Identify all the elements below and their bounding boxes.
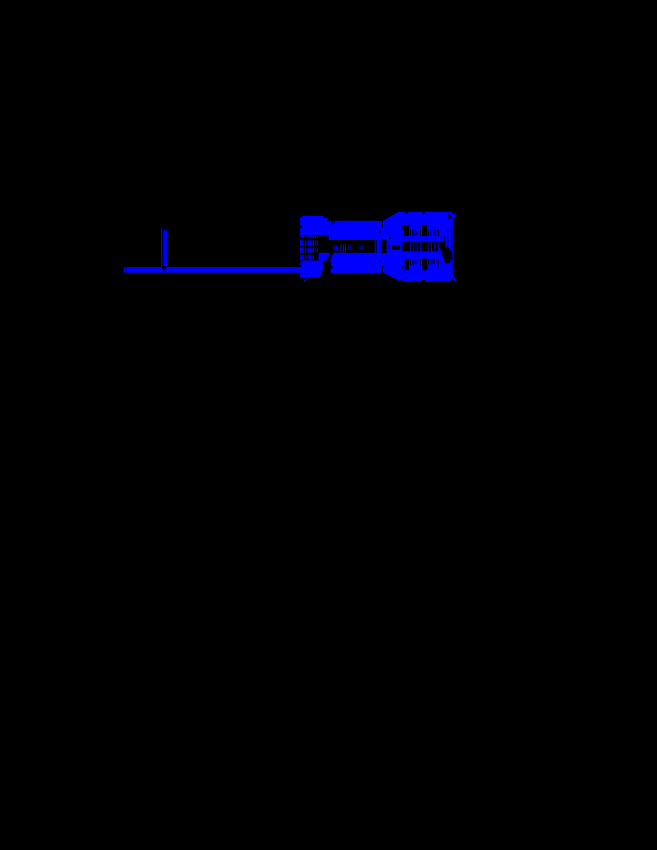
bottom edge wedge xyxy=(398,279,402,282)
bore speck 1 xyxy=(334,246,335,251)
hatch line 7 dim xyxy=(316,236,319,253)
lower slot s4 xyxy=(416,259,419,264)
bore speck 2 xyxy=(336,246,337,251)
lower slot s2 xyxy=(412,259,415,265)
lower slot s6 xyxy=(427,259,430,264)
middle band blue line 3 xyxy=(416,242,419,252)
hatch line 3 xyxy=(308,235,309,261)
dashed end line gap 5 xyxy=(300,260,302,262)
dashed end line gap 3 xyxy=(300,245,302,247)
wire lead start tick xyxy=(124,267,126,273)
hatch break row 1 xyxy=(302,238,314,240)
flare dot upper xyxy=(390,238,391,239)
bore end blue column 2 xyxy=(377,240,379,253)
lower slot s1 xyxy=(409,259,412,265)
middle shadow band xyxy=(403,242,440,252)
wire barrel bottom band xyxy=(331,253,384,273)
wire lead xyxy=(126,267,320,273)
corner ragged dash bottom xyxy=(449,275,450,280)
receptacle opening shadow xyxy=(439,242,451,264)
barrel below-bore ledge xyxy=(319,253,331,261)
top band left notch 2 xyxy=(334,221,335,224)
hatch line 5 xyxy=(313,235,315,261)
right seam line long xyxy=(451,223,452,274)
lower slot s10 xyxy=(438,259,439,267)
bore speck 3 xyxy=(341,245,342,253)
dashed end line gap 4 xyxy=(300,253,302,255)
crimp indent line 1 xyxy=(325,263,332,265)
strip speck a xyxy=(347,245,350,250)
hatch break row 4 xyxy=(302,259,314,261)
crimp indent line 2 xyxy=(325,266,333,269)
barrel seam bottom dash xyxy=(382,266,383,273)
bore speck 5 xyxy=(345,245,346,253)
middle band blue line 5 xyxy=(427,242,430,252)
strip marker arrow notch xyxy=(161,267,167,271)
strip speck c xyxy=(359,246,362,250)
middle band blue line 2 xyxy=(412,242,415,252)
dashed end line gap 2 xyxy=(300,237,302,240)
insulation barrel left column xyxy=(302,216,304,278)
upper slot s3 xyxy=(414,231,417,236)
opening blue sliver xyxy=(446,242,447,249)
middle band blue line 7 xyxy=(433,242,436,252)
top edge notch 2 xyxy=(423,212,425,214)
strip-length marker line 2 xyxy=(163,230,165,267)
hatch line 6 dim xyxy=(314,236,317,253)
flare dot lower xyxy=(390,255,391,256)
hatch break row 2 xyxy=(302,246,314,248)
insulation crimp hatch window xyxy=(302,235,314,261)
upper slot s2 xyxy=(412,229,413,236)
lower slot big 2 xyxy=(422,259,427,271)
upper slot big 2 xyxy=(422,225,427,236)
bore end blue column 3 xyxy=(380,240,381,253)
crimp transition diagonal gap xyxy=(320,253,334,278)
upper slot s5 xyxy=(419,230,422,236)
upper slot s8 xyxy=(432,230,435,236)
insulation barrel top notch xyxy=(323,216,325,219)
strip speck d xyxy=(361,246,364,250)
barrel seam top dash xyxy=(382,221,383,227)
upper slot s4 xyxy=(415,231,418,236)
barrel seam blob xyxy=(381,240,387,253)
corner ragged dash top 2 xyxy=(450,215,451,219)
lower slot big 1 xyxy=(405,259,409,270)
hatch dim break 2 xyxy=(315,246,319,248)
dashed end line gap 1 xyxy=(300,226,302,228)
hatch line 1 xyxy=(302,235,304,261)
lower slot s9 xyxy=(433,259,436,263)
right edge nub top xyxy=(453,214,455,218)
lower tiny slot xyxy=(401,265,404,269)
lower slot s3 xyxy=(414,259,417,264)
right seam line mid xyxy=(446,228,449,261)
bore speck 4 xyxy=(343,245,344,253)
lower slot s8 xyxy=(432,259,435,263)
hatch line 2 xyxy=(305,235,306,261)
upper slot s7 xyxy=(430,230,433,236)
upper slot s6 xyxy=(427,231,430,237)
barrel lower mass xyxy=(303,261,323,278)
upper slot big 1 xyxy=(404,225,409,236)
top band black dot xyxy=(379,230,380,233)
strip speck b xyxy=(349,245,352,250)
hatch line 4 xyxy=(310,235,311,261)
right seam line short xyxy=(443,236,446,241)
right edge nub bottom xyxy=(453,277,455,281)
strip-length marker line 3 xyxy=(166,230,167,266)
insulation barrel dashed end line xyxy=(300,217,302,278)
corner ragged dash top xyxy=(448,213,449,219)
contact gap bar xyxy=(392,245,400,250)
middle band blue line 6 xyxy=(430,242,433,252)
middle band blue line 8 xyxy=(437,242,440,252)
leader tick below mass xyxy=(303,278,308,282)
insulation bore shadow xyxy=(314,235,331,253)
wire barrel top band xyxy=(329,221,384,240)
bottom band black dot xyxy=(379,260,380,262)
upper slot s10 xyxy=(438,229,439,236)
contact gap dot xyxy=(389,245,390,249)
lower slot s7 xyxy=(430,259,433,264)
strip-length marker line 1 xyxy=(161,228,162,268)
hatch break row 3 xyxy=(302,253,314,255)
bottom edge notch xyxy=(422,280,425,282)
top band left notch 1 xyxy=(331,221,332,225)
bore end blue column 1 xyxy=(375,240,376,253)
top edge notch 1 xyxy=(406,212,408,214)
upper tiny slot xyxy=(402,226,403,229)
middle band blue line 1 xyxy=(409,242,412,252)
flare and receptacle body xyxy=(383,212,453,282)
dashed end line gap 6 xyxy=(300,265,302,267)
middle band blue line 4 xyxy=(419,242,422,252)
lower slot s5 xyxy=(419,259,422,264)
hatch dim break 1 xyxy=(315,238,319,240)
upper slot s9 xyxy=(433,230,436,236)
insulation barrel upper body xyxy=(302,216,331,239)
upper slot s1 xyxy=(409,230,412,236)
